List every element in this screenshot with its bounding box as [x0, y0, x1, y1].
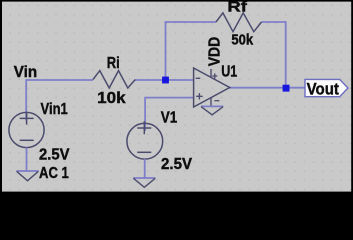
svg-text:Vout: Vout [307, 79, 340, 98]
ground under op-amp [201, 105, 223, 107]
svg-text:AC 1: AC 1 [39, 165, 69, 182]
ground under V1 [133, 177, 155, 179]
Vin1 plus sign [20, 112, 34, 125]
wire: Ri right to op-amp inverting input [135, 79, 194, 81]
V1 plus sign [137, 121, 151, 134]
svg-text:Rf: Rf [227, 0, 248, 16]
svg-text:U1: U1 [221, 64, 237, 81]
wire: Vin horizontal to Ri [26, 79, 94, 81]
svg-text:Vin: Vin [14, 64, 37, 81]
wire: Vin vertical down into Vin1 [25, 80, 27, 121]
Vin1 bottom stub [26, 148, 28, 171]
ground under Vin1 [16, 170, 38, 172]
op-amp VSS minus mark [214, 100, 219, 102]
voltage source Vin1 circle [9, 112, 44, 147]
wire: Rf left horizontal [165, 21, 216, 23]
svg-text:VDD: VDD [206, 37, 223, 67]
svg-text:Vin1: Vin1 [41, 101, 69, 118]
svg-text:2.5V: 2.5V [39, 146, 70, 163]
wire: feedback right vertical down [285, 21, 287, 88]
svg-text:Ri: Ri [107, 55, 120, 72]
voltage source V1 circle [127, 123, 163, 159]
op-amp U1 triangle [194, 68, 230, 107]
Vin1 minus sign [20, 139, 34, 141]
wire: feedback vertical up from junction [165, 22, 167, 80]
svg-text:V1: V1 [161, 109, 178, 126]
border frame [0, 0, 353, 2]
resistor Rf [216, 13, 262, 32]
junction at Ri / feedback node [162, 77, 169, 84]
svg-text:2.5V: 2.5V [161, 156, 193, 173]
resistor Ri [93, 71, 135, 88]
wire: vertical down into V1 [144, 98, 146, 131]
op-amp VSS pin stub [210, 97, 212, 106]
svg-text:10k: 10k [97, 90, 126, 107]
op-amp VDD pin stub [210, 69, 212, 78]
wire: op-amp output to Vout [228, 87, 306, 89]
op-amp VDD plus mark [212, 73, 217, 78]
wire: op-amp noninverting input horizontal [144, 97, 193, 99]
junction at output node [283, 85, 290, 92]
V1 minus sign [137, 151, 151, 153]
port Vout flag [305, 79, 348, 96]
op-amp inverting input mark [196, 77, 201, 79]
V1 bottom stub [144, 159, 146, 178]
op-amp noninverting input mark [196, 93, 202, 99]
wire: Rf right horizontal [262, 21, 287, 23]
svg-text:50k: 50k [231, 32, 253, 49]
